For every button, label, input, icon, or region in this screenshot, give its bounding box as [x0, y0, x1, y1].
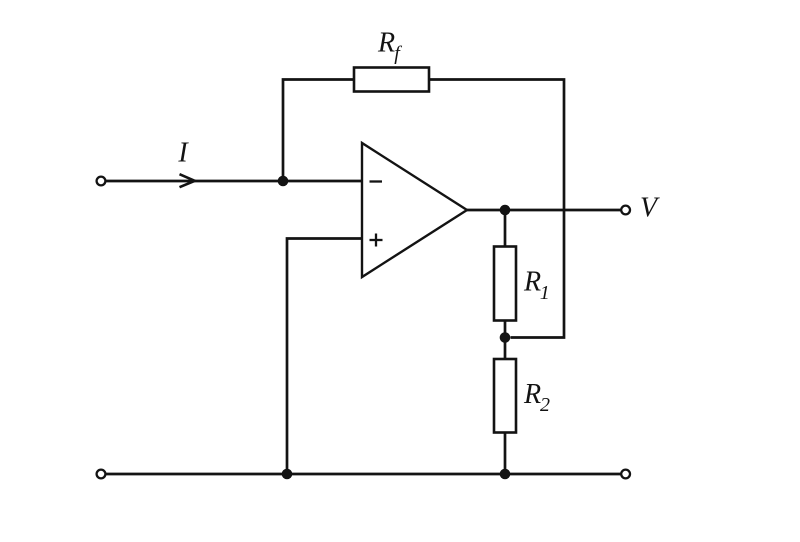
svg-text:V: V — [640, 193, 660, 224]
node: output junction — [500, 205, 511, 216]
label R2 — [523, 379, 550, 416]
svg-text:R: R — [523, 379, 541, 410]
svg-text:f: f — [394, 43, 402, 65]
op-amp pin label: inverting (minus) — [370, 180, 383, 182]
wire: inverting node up to feedback resistor (left side) — [283, 80, 354, 182]
wire: bottom rail — [106, 473, 622, 476]
svg-text:I: I — [177, 138, 189, 169]
wire: input lead from left terminal to op-amp inverting input — [106, 180, 363, 183]
bottom-right terminal (open circle) — [621, 470, 630, 479]
arrow: current direction on input wire — [180, 174, 195, 187]
svg-text:R: R — [377, 27, 395, 58]
wire: feedback resistor right side down to R1/R2 junction — [429, 80, 564, 338]
bottom-left terminal (open circle) — [97, 470, 106, 479]
svg-text:2: 2 — [540, 394, 550, 416]
wire: output node down to resistor R1 — [504, 210, 507, 247]
op-amp pin label: non-inverting (plus) — [370, 234, 383, 247]
node: R2 bottom rail junction — [500, 469, 511, 480]
output terminal V (open circle, right) — [621, 206, 630, 215]
wire: R1 bottom through junction to R2 top — [504, 321, 507, 360]
resistor Rf — [354, 68, 429, 92]
input terminal (open circle, top left) — [97, 177, 106, 186]
resistor R2 — [494, 359, 516, 433]
label Rf — [377, 27, 402, 64]
wire: R2 bottom to bottom rail — [504, 433, 507, 475]
svg-text:R: R — [523, 267, 541, 298]
node: inverting input junction — [278, 176, 289, 187]
node: R1/R2 junction — [500, 332, 511, 343]
wire: op-amp output to right terminal V — [467, 209, 622, 212]
label R1 — [523, 267, 550, 305]
node: non-inverting rail junction — [282, 469, 293, 480]
op-amp U1 — [362, 143, 467, 277]
resistor R1 — [494, 247, 516, 321]
svg-text:1: 1 — [540, 282, 550, 304]
wire: non-inverting input down to bottom rail — [287, 239, 362, 475]
